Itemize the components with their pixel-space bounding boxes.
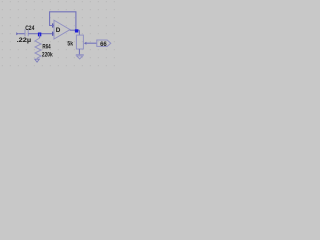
background [0,0,120,72]
svg-text:66: 66 [100,41,107,48]
port 66 flag [97,40,111,46]
potentiometer body 5k [76,35,83,49]
svg-text:220k: 220k [42,51,53,58]
svg-text:D: D [56,27,61,34]
wire pot bottom to ground [78,49,80,55]
op-amp U1 triangle [54,20,70,39]
wire wiper to port [86,42,97,44]
op-amp - input pin end [52,23,53,27]
wire op-amp output [70,29,80,31]
node A junction [38,33,41,37]
wire down to pot [78,30,80,35]
svg-text:.22µ: .22µ [17,37,32,44]
op-amp + input pin end [52,32,53,36]
wire node A to op-amp + input [40,33,54,35]
capacitor C24 plates [25,29,28,36]
ground [76,55,84,59]
wire feedback loop [50,12,76,30]
resistor R64 zigzag [35,38,41,59]
svg-text:R64: R64 [42,43,50,50]
svg-text:C24: C24 [25,25,34,32]
node B junction [75,29,78,32]
wire cap to node A [28,33,39,35]
R64 bottom pin end arrow [35,59,40,62]
wire node A down to R64 [39,34,41,39]
capacitor C24 left pin end [16,32,19,35]
pot wiper arrow [84,42,87,45]
wire cap left pin [18,33,25,35]
svg-text:5k: 5k [67,41,73,48]
